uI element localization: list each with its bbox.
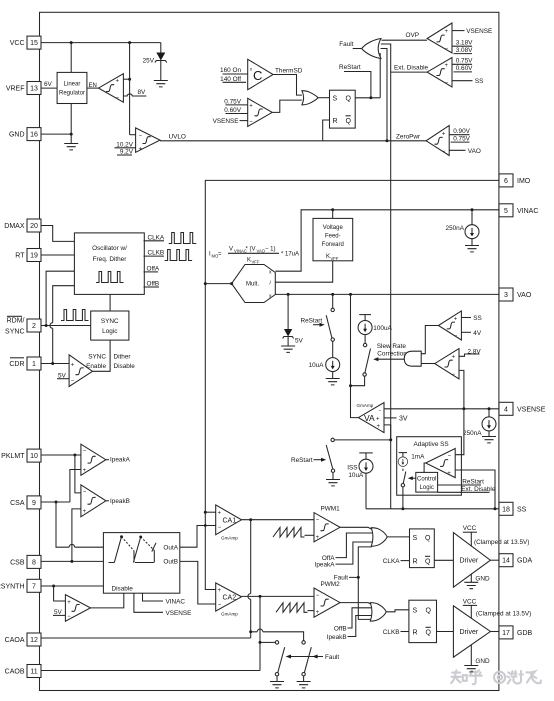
block linear regulator <box>57 72 87 103</box>
label 2.8V <box>459 348 481 356</box>
svg-text:R: R <box>333 118 338 125</box>
wire zeropwr riser to OR <box>381 49 388 141</box>
node rsynth <box>52 585 55 588</box>
svg-text:OutA: OutA <box>163 545 178 552</box>
svg-text:CLKA: CLKA <box>148 234 165 241</box>
op-amp CA2 <box>216 583 242 617</box>
svg-text:Linear: Linear <box>64 82 81 88</box>
svg-text:−: − <box>139 134 143 140</box>
wire VA 3V <box>384 415 408 422</box>
svg-text:250nA: 250nA <box>463 430 482 437</box>
pin VINAC 5 <box>499 204 538 217</box>
wire CDR riser to osc with hop <box>53 286 75 364</box>
wire VCC rail <box>41 42 161 44</box>
wire ThermSD <box>273 68 303 96</box>
svg-text:−: − <box>218 603 222 609</box>
and-gate slew <box>404 351 421 366</box>
svg-text:UVLO: UVLO <box>169 134 186 141</box>
svg-text:+: + <box>454 316 458 322</box>
node imo ca1 <box>204 511 207 514</box>
svg-text:3: 3 <box>504 292 508 299</box>
node va line slew <box>349 384 352 387</box>
wire CSB line <box>41 560 103 562</box>
op-amp PWM2 <box>314 581 340 617</box>
wire CAOB line <box>41 670 260 672</box>
label SYNC Enable <box>86 354 106 371</box>
svg-text:+: + <box>376 417 380 423</box>
svg-text:7: 7 <box>32 583 36 590</box>
svg-text:RDM/: RDM/ <box>7 318 25 325</box>
op-amp IpeakA <box>81 444 106 475</box>
svg-text:R: R <box>413 630 418 637</box>
pin GDA 14 <box>499 554 533 567</box>
svg-text:* 17uA: * 17uA <box>281 252 299 258</box>
wire linreg top <box>70 43 72 73</box>
svg-text:(Clamped at 13.5V): (Clamped at 13.5V) <box>476 611 531 618</box>
pin RT 19 <box>15 249 41 262</box>
node vsense 250na tap <box>488 407 491 410</box>
pin RDM/SYNC 2 <box>5 316 41 335</box>
pin IMO 6 <box>499 174 531 187</box>
svg-text:ReStart: ReStart <box>291 457 313 464</box>
pin CDR 1 <box>9 357 41 370</box>
svg-text:Enable: Enable <box>86 363 106 370</box>
pin DMAX 20 <box>4 219 41 232</box>
wire driverA to pin <box>490 559 499 561</box>
svg-text:IpeakB: IpeakB <box>110 498 130 505</box>
svg-text:ReStart: ReStart <box>301 317 323 324</box>
svg-text:R: R <box>413 559 418 566</box>
svg-text:−: − <box>316 517 320 523</box>
op-amp CA1 <box>216 505 242 540</box>
svg-text:Disable: Disable <box>114 363 136 370</box>
wire ca2 out <box>242 595 315 597</box>
pin PKLMT 10 <box>1 449 41 462</box>
svg-text:GmAmp: GmAmp <box>221 535 238 540</box>
node fault <box>357 576 360 579</box>
op-amp UVLO comparator <box>136 128 160 153</box>
label 5V rsynth <box>53 609 65 616</box>
svg-text:140 Off: 140 Off <box>220 76 241 83</box>
label GND driver B <box>464 645 490 672</box>
driver B <box>453 606 490 657</box>
svg-text:6: 6 <box>504 178 508 185</box>
label 5V sync <box>57 372 69 379</box>
svg-text:-: - <box>379 408 381 414</box>
label IpeakB <box>106 498 130 505</box>
wire pklmt to ipeakB <box>75 455 81 493</box>
wire VAO line <box>275 293 499 295</box>
svg-text:IpeakB: IpeakB <box>327 634 347 641</box>
svg-text:Q: Q <box>346 95 352 102</box>
svg-text:+: + <box>447 471 451 477</box>
svg-text:4: 4 <box>504 406 508 413</box>
wire osc to sync logic <box>109 294 111 311</box>
wire csb to ipeakB plus <box>72 509 81 562</box>
svg-text:VAO: VAO <box>468 148 481 155</box>
wire RDM riser to osc <box>46 271 74 324</box>
block adaptive SS <box>397 437 462 496</box>
op-amp SS 4V comparator <box>438 311 461 340</box>
switch restart iss <box>326 445 340 486</box>
label IpeakA <box>106 457 131 464</box>
wire tap to switch A <box>260 641 275 643</box>
svg-text:IMO: IMO <box>517 178 531 185</box>
svg-text:SYNC: SYNC <box>88 354 106 361</box>
node VCC-linreg <box>70 41 73 44</box>
label slew rate correction <box>373 343 407 361</box>
wire ca1 down with hop <box>250 520 252 638</box>
svg-text:VINAC: VINAC <box>517 208 538 215</box>
or-gate A <box>371 528 387 547</box>
svg-text:GDA: GDA <box>517 558 533 565</box>
svg-text:CSA: CSA <box>10 500 25 507</box>
wire ca2 down <box>259 596 261 670</box>
pin SS 18 <box>499 502 527 515</box>
svg-text:+: + <box>445 29 449 35</box>
svg-text:S: S <box>413 535 418 542</box>
svg-text:SS: SS <box>473 315 482 322</box>
switch slew rate <box>351 349 371 386</box>
svg-text:Fault: Fault <box>339 41 353 48</box>
wire driverB to pin <box>490 631 499 633</box>
svg-text:10uA: 10uA <box>348 472 364 479</box>
switch adaptive ss <box>401 469 406 509</box>
node csa <box>55 501 58 504</box>
wire pwm1 to orA <box>340 527 371 529</box>
svg-text:Q: Q <box>346 118 352 125</box>
svg-text:(Clamped at 13.5V): (Clamped at 13.5V) <box>474 539 529 546</box>
svg-text:0.75V: 0.75V <box>224 98 241 105</box>
svg-text:x: x <box>269 294 272 300</box>
op-amp PWM1 <box>314 505 340 541</box>
wire VA plus bottom to ss net <box>384 425 391 440</box>
svg-text:CA2: CA2 <box>223 595 237 602</box>
pin CAOB 11 <box>5 665 41 678</box>
svg-text:1mA: 1mA <box>411 453 425 460</box>
svg-text:Driver: Driver <box>460 558 479 565</box>
wire ss net to ss line <box>390 440 392 509</box>
svg-text:−: − <box>454 334 458 340</box>
svg-text:VSENSE: VSENSE <box>166 610 192 617</box>
label GND driver A <box>464 574 490 589</box>
svg-text:VFF: VFF <box>252 260 260 265</box>
svg-text:2: 2 <box>32 323 36 330</box>
svg-text:−: − <box>448 454 452 460</box>
op-amp Ext Disable <box>427 58 452 88</box>
wire or to S <box>318 97 329 99</box>
label Dither Disable <box>114 354 136 371</box>
pin VCC 15 <box>10 36 41 49</box>
label SS ext <box>452 78 483 85</box>
label CLKA <box>383 558 410 565</box>
wire vsense comp out <box>272 100 302 112</box>
svg-text:+: + <box>83 468 87 474</box>
svg-text:+: + <box>218 588 222 594</box>
wire tap to switch B with hop <box>251 632 304 641</box>
svg-text:5V: 5V <box>295 337 304 344</box>
wire IpeakA to orA <box>336 542 374 564</box>
svg-text:OffB: OffB <box>334 625 347 632</box>
svg-text:Mult.: Mult. <box>246 282 259 288</box>
wire VINAC line <box>333 209 499 211</box>
wire kvff to mult <box>275 261 332 282</box>
svg-text:Forward: Forward <box>322 242 344 248</box>
wire VSENSE line <box>384 408 499 410</box>
block oscillator <box>74 233 144 295</box>
latch B SR <box>409 600 437 642</box>
svg-text:5V: 5V <box>54 609 63 616</box>
svg-text:RSYNTH: RSYNTH <box>0 583 25 590</box>
waveform rdm <box>61 310 89 321</box>
label OffA out <box>144 265 160 272</box>
svg-text:14: 14 <box>502 558 510 565</box>
wire csa to synth with hop <box>56 502 103 547</box>
svg-text:Disable: Disable <box>112 586 134 593</box>
ground zener25 <box>154 81 168 87</box>
label ReStart top <box>339 64 371 98</box>
wire synth VINAC <box>143 593 186 605</box>
wire latch R riser <box>323 120 330 141</box>
wire RDM/SYNC line <box>41 325 91 327</box>
node RDM riser <box>45 324 48 327</box>
svg-text:K: K <box>247 258 251 264</box>
svg-text:CLKA: CLKA <box>383 558 400 565</box>
wire ca1 out <box>242 519 315 521</box>
wire IpeakB to orB <box>348 616 373 637</box>
svg-text:Logic: Logic <box>102 328 118 335</box>
wire latchA to driverA <box>434 559 453 561</box>
latch fault SR <box>330 90 356 128</box>
svg-text:VAO: VAO <box>517 292 532 299</box>
wire fault down to orB <box>358 577 371 619</box>
or-gate fault (left pointing) <box>362 39 381 59</box>
arrow control to switch <box>408 476 416 480</box>
op-amp EN comparator <box>99 74 124 103</box>
svg-text:+: + <box>116 79 120 85</box>
svg-text:+: + <box>316 535 320 541</box>
svg-text:16: 16 <box>30 132 38 139</box>
wire adaptive comp minus to vsense <box>455 409 464 455</box>
svg-text:+: + <box>442 132 446 138</box>
wire OVP to OR <box>382 39 428 41</box>
svg-text:0.75V: 0.75V <box>456 58 473 65</box>
wire adaptive comp plus to ss <box>455 470 495 509</box>
wire comp 2.8V to and <box>421 363 435 365</box>
svg-text:x: x <box>269 270 272 276</box>
comparator thermal C <box>248 59 273 89</box>
wire imo to mult tip <box>205 283 231 285</box>
block sync logic <box>91 311 129 340</box>
svg-text:VCC: VCC <box>463 525 477 532</box>
svg-text:−: − <box>67 614 71 620</box>
label 3.18V 3.08V <box>452 39 473 54</box>
waveform clka <box>169 233 197 244</box>
svg-text:DMAX: DMAX <box>4 223 25 230</box>
svg-text:Slew Rate: Slew Rate <box>377 343 407 350</box>
svg-text:CA1: CA1 <box>223 518 237 525</box>
svg-text:GDB: GDB <box>517 630 533 637</box>
svg-text:Correction: Correction <box>377 350 407 357</box>
svg-text:4V: 4V <box>473 330 482 337</box>
svg-text:250nA: 250nA <box>446 225 465 232</box>
waveform sawtooth B <box>276 603 308 613</box>
wire latchB to driverB <box>437 631 454 633</box>
wire CDR line <box>41 363 69 365</box>
label ReStart iss <box>291 457 326 464</box>
svg-text:VCC: VCC <box>463 598 477 605</box>
label CLKB <box>383 629 409 636</box>
label ReStart vao <box>301 317 325 326</box>
svg-text:0.60V: 0.60V <box>456 65 473 72</box>
node vinac 250na tap <box>471 208 474 211</box>
wire fault latch Q <box>355 97 380 99</box>
svg-text:11: 11 <box>30 669 37 676</box>
label 0.90V 0.75V <box>449 128 470 143</box>
label Ext Disable control <box>438 486 496 493</box>
wire CSA line <box>41 501 70 503</box>
svg-text:V: V <box>229 247 233 253</box>
svg-text:−: − <box>442 149 446 155</box>
svg-text:−: − <box>445 47 449 53</box>
svg-text:160 On: 160 On <box>220 67 241 74</box>
svg-text:VSENSE: VSENSE <box>517 406 546 413</box>
pin VAO 3 <box>499 288 532 301</box>
svg-text:−: − <box>83 490 87 496</box>
label VCC driver B <box>463 598 477 618</box>
wire fault to orA <box>349 547 372 578</box>
svg-text:OffA: OffA <box>147 265 160 272</box>
switch fault A <box>270 641 285 688</box>
svg-text:17: 17 <box>502 630 510 637</box>
svg-text:12: 12 <box>30 637 38 644</box>
wire ss net corner to OR <box>381 44 391 72</box>
node vff tap <box>331 208 334 211</box>
svg-text:ISS: ISS <box>347 464 357 471</box>
label VAO zeropwr <box>449 148 481 155</box>
label 0.75V 0.60V ext <box>452 58 473 73</box>
wire DMAX in <box>41 226 74 242</box>
svg-text:IpeakA: IpeakA <box>110 457 131 464</box>
node VCC-en <box>128 41 131 44</box>
svg-text:Voltage: Voltage <box>323 225 344 231</box>
wire UVLO minus from VCC riser <box>130 134 136 136</box>
svg-text:GND: GND <box>475 658 490 665</box>
wire 2.8comp minus to vsense <box>459 370 464 408</box>
op-amp adaptive comparator <box>426 449 456 478</box>
node Q restart <box>369 96 372 99</box>
svg-text:CDR: CDR <box>9 361 24 368</box>
ground GND pin <box>64 134 78 150</box>
pin RSYNTH 7 <box>0 579 41 592</box>
wire sawB to pwm2 <box>308 610 315 612</box>
svg-text:Dither: Dither <box>114 354 132 361</box>
pin GND 16 <box>9 128 41 141</box>
svg-text:6V: 6V <box>44 81 53 88</box>
svg-text:CAOB: CAOB <box>5 669 25 676</box>
node ss comp plus <box>494 507 497 510</box>
svg-text:VFF: VFF <box>331 256 339 261</box>
wire comp SS4V to and <box>421 326 438 354</box>
wire OffA to orA <box>336 533 373 558</box>
pin CAOA 12 <box>5 633 41 646</box>
svg-text:ZeroPwr: ZeroPwr <box>396 134 421 141</box>
waveform clkb <box>165 250 193 261</box>
label SS 4v comp <box>461 315 481 322</box>
svg-text:+: + <box>83 509 87 515</box>
label CLKB out <box>144 250 165 257</box>
label 4V <box>461 330 481 337</box>
svg-text:CSB: CSB <box>10 559 25 566</box>
label 10.2V 9.2V <box>115 141 136 155</box>
wire outa to ca1 minus <box>180 526 216 548</box>
block voltage feed-forward <box>313 218 353 261</box>
svg-text:−: − <box>445 81 449 87</box>
svg-text:S: S <box>333 95 338 102</box>
or-gate B <box>370 603 386 622</box>
node outa cross <box>204 524 207 527</box>
label 160On 140Off <box>220 67 248 83</box>
svg-text:VREF: VREF <box>6 86 25 93</box>
svg-text:RT: RT <box>15 253 25 260</box>
svg-text:8V: 8V <box>138 89 147 96</box>
node imo mult <box>204 282 207 285</box>
node pklmt <box>73 454 76 457</box>
svg-text:CAOA: CAOA <box>5 637 25 644</box>
latch A SR <box>410 529 435 568</box>
svg-text:Control: Control <box>417 476 436 482</box>
svg-text:EN: EN <box>89 83 97 89</box>
switch restart vao <box>326 294 334 341</box>
svg-text:Oscillator w/: Oscillator w/ <box>92 245 127 252</box>
svg-text:C: C <box>253 68 262 83</box>
node EN plus <box>128 78 131 81</box>
svg-text:−: − <box>83 449 87 455</box>
svg-text:+: + <box>316 610 320 616</box>
wire ISS line <box>334 439 390 441</box>
svg-text:IpeakA: IpeakA <box>315 561 336 568</box>
wire RT in <box>41 254 74 256</box>
svg-text:Ext. Disable: Ext. Disable <box>461 486 496 493</box>
pin CSB 8 <box>10 555 41 568</box>
svg-text:OffB: OffB <box>147 281 160 288</box>
wire VREF 6V <box>41 81 57 88</box>
svg-text:OutB: OutB <box>163 559 178 566</box>
svg-text:Q: Q <box>425 535 431 542</box>
svg-text:100uA: 100uA <box>373 325 392 332</box>
pin VSENSE 4 <box>499 402 546 415</box>
svg-text:−: − <box>316 593 320 599</box>
op-amp sync 5V comparator <box>69 355 92 387</box>
node vao restart <box>331 293 334 296</box>
svg-text:CLKB: CLKB <box>383 629 400 636</box>
wire orB out to latch <box>386 610 409 612</box>
wire rsynth to 5v comp <box>54 586 66 601</box>
wire 8V with hop <box>123 89 146 96</box>
node vao zener <box>287 293 290 296</box>
svg-text:Q: Q <box>425 559 431 566</box>
svg-text:SYNC: SYNC <box>101 318 119 325</box>
svg-text:0.75V: 0.75V <box>453 135 470 142</box>
op-amp IpeakB <box>81 485 106 517</box>
svg-text:10: 10 <box>30 453 38 460</box>
svg-text:0.90V: 0.90V <box>453 128 470 135</box>
svg-text:+: + <box>67 600 71 606</box>
svg-text:PWM2: PWM2 <box>321 581 341 588</box>
label VSENSE ovp <box>452 28 492 35</box>
pin VREF 13 <box>6 82 41 95</box>
wire zener drop <box>160 43 162 53</box>
